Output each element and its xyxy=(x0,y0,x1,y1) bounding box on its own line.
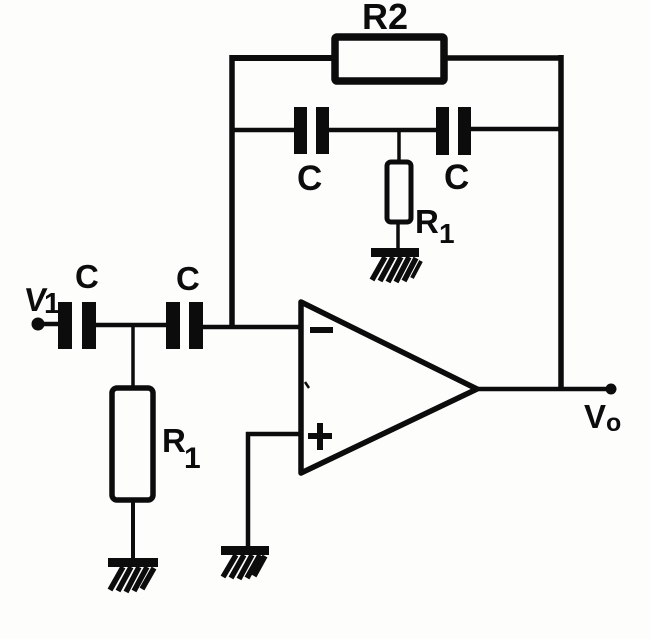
svg-text:R: R xyxy=(415,203,439,240)
input terminal dot xyxy=(32,318,45,331)
wire input to first capacitor xyxy=(38,322,61,327)
svg-text:1: 1 xyxy=(439,218,455,249)
wire feedback left vertical xyxy=(229,55,235,329)
svg-text:C: C xyxy=(297,159,322,198)
op-amp inverting input marker (-) xyxy=(310,327,333,333)
stray ink mark near op-amp xyxy=(305,382,309,388)
wire R1 to ground (twin-T) xyxy=(396,220,400,253)
svg-text:R: R xyxy=(162,422,186,459)
svg-text:V: V xyxy=(584,398,606,435)
op-amp U1 triangle xyxy=(301,302,477,473)
wire second capacitor to op-amp inverting input xyxy=(203,325,303,330)
wire R1 to ground (input) xyxy=(131,498,135,562)
wire feedback top-left horizontal xyxy=(230,55,336,61)
wire twin-T right segment xyxy=(469,127,563,132)
label Vo (output) xyxy=(584,398,621,437)
wire between input capacitors xyxy=(96,323,169,328)
svg-text:1: 1 xyxy=(44,288,60,320)
capacitor C top-left xyxy=(294,107,329,154)
node twin-T center junction, wire down to R1 xyxy=(397,128,401,164)
ground (non-inverting input) xyxy=(221,546,269,579)
resistor R1 (input shunt) xyxy=(112,388,153,500)
capacitor C input-second xyxy=(166,302,203,349)
wire twin-T middle segment xyxy=(327,128,439,133)
svg-text:C: C xyxy=(444,158,469,197)
label R1 (input shunt) xyxy=(162,422,201,475)
capacitor C input-first xyxy=(58,302,96,349)
ground (input shunt) xyxy=(108,558,158,592)
wire feedback right vertical xyxy=(558,55,564,390)
label R1 (twin-T shunt) xyxy=(415,203,455,249)
wire non-inverting input down to ground xyxy=(246,432,251,551)
svg-text:R2: R2 xyxy=(362,0,408,37)
wire non-inverting input horizontal xyxy=(246,432,303,437)
wire feedback top-right horizontal xyxy=(446,55,563,61)
ground (twin-T shunt) xyxy=(371,248,421,282)
capacitor C top-right xyxy=(436,107,471,155)
svg-text:C: C xyxy=(75,258,99,295)
node input junction, wire down to shunt R1 xyxy=(131,325,135,390)
label V1 (input) xyxy=(22,282,60,320)
resistor R1 (twin-T shunt) xyxy=(387,162,411,222)
op-amp non-inverting input marker (+) xyxy=(308,423,332,450)
svg-text:C: C xyxy=(176,260,200,297)
wire op-amp output xyxy=(477,387,612,392)
svg-text:1: 1 xyxy=(184,442,201,475)
svg-text:o: o xyxy=(606,409,621,437)
resistor R2 xyxy=(335,37,444,81)
output terminal dot xyxy=(606,384,617,395)
wire twin-T left segment xyxy=(230,128,298,133)
